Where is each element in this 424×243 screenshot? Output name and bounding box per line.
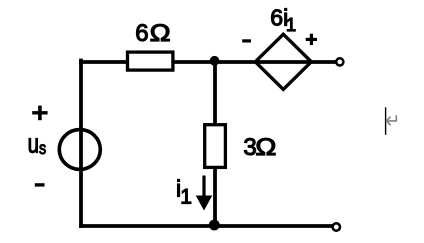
svg-text:Ω: Ω bbox=[255, 134, 276, 161]
svg-text:1: 1 bbox=[286, 14, 296, 35]
svg-text:Ω: Ω bbox=[150, 20, 171, 47]
svg-text:1: 1 bbox=[180, 185, 192, 208]
svg-text:6: 6 bbox=[135, 20, 148, 47]
